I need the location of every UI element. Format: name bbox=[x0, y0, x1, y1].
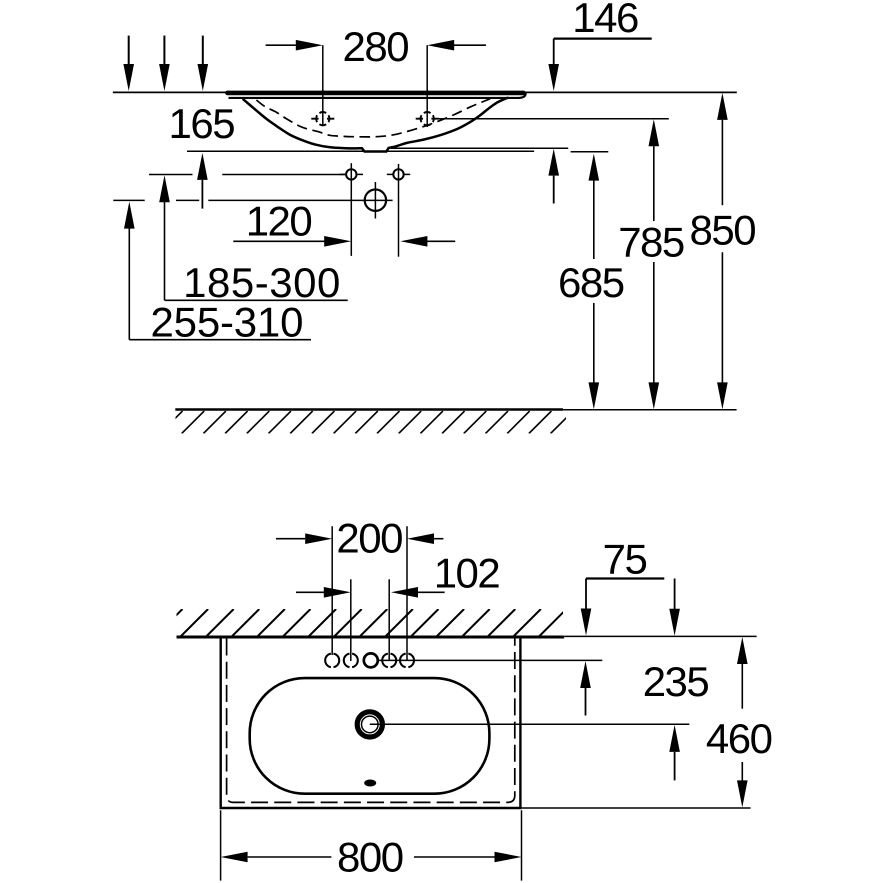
dimension 120 left leader bbox=[233, 240, 325, 242]
dimension 235 lower arrow tail bbox=[674, 752, 676, 781]
basin left edge (plan view) bbox=[219, 638, 221, 809]
drain centreline through drain hole bbox=[208, 199, 392, 201]
dimension 255-310 stem bbox=[128, 229, 130, 340]
basin bowl outline (plan view) bbox=[250, 678, 490, 794]
dimension 850 line lower bbox=[721, 252, 723, 382]
faucet holes centreline extension (plan view) bbox=[378, 659, 603, 661]
dimension 200 right leader bbox=[434, 538, 443, 540]
countertop dashed outline (plan view) bbox=[227, 639, 515, 803]
dimension 785 line upper bbox=[653, 146, 655, 221]
dimension 102 right extension line bbox=[388, 579, 390, 661]
left faucet hole (side view, dashed circle) bbox=[311, 112, 334, 125]
dimension 165 arrow tail bbox=[201, 180, 203, 209]
dimension 800 line left bbox=[248, 856, 332, 858]
middle mounting arrow (wall fixing) bbox=[159, 36, 170, 91]
basin bowl outer profile (side view) bbox=[243, 98, 509, 152]
dimension 850 top arrowhead bbox=[717, 93, 728, 120]
drain hole (plan view, double ring) bbox=[357, 712, 382, 737]
svg-text:850: 850 bbox=[690, 207, 756, 254]
dimension 200 right extension line bbox=[406, 526, 408, 661]
dimension 280 right arrowhead bbox=[427, 40, 454, 51]
dimension 200 right arrowhead bbox=[407, 533, 434, 544]
dimension 146 lower arrowhead bbox=[548, 149, 559, 176]
dimension 75 lower arrow tail bbox=[585, 688, 587, 716]
bolt hole centreline extension (left segment) bbox=[149, 174, 193, 176]
svg-text:685: 685 bbox=[558, 259, 624, 306]
dimension 102 left arrowhead bbox=[324, 587, 351, 598]
deck hole 4 (optional, arcs) bbox=[382, 654, 396, 668]
dimension 75 stem bbox=[585, 579, 587, 610]
dimension 255-310 arrowhead bbox=[124, 202, 135, 229]
drain centreline segment (left dash) bbox=[176, 199, 199, 201]
dimension 460 line lower bbox=[741, 762, 743, 781]
drain hole (side view) bbox=[365, 182, 386, 219]
dimension 146 lower arrow tail bbox=[553, 176, 555, 204]
overflow slot (plan view) bbox=[364, 780, 376, 787]
dimension 235 lower arrowhead bbox=[669, 725, 680, 752]
dimension 685 line lower bbox=[593, 303, 595, 383]
dimension 280 left leader bbox=[266, 44, 297, 46]
basin rim plate bottom edge bbox=[229, 93, 526, 98]
dimension 785 bottom arrowhead bbox=[649, 382, 660, 409]
basin bowl inner profile (dashed) bbox=[256, 99, 490, 137]
basin front edge extension line (to 460) bbox=[522, 807, 751, 809]
dimension 785 line lower bbox=[653, 262, 655, 383]
dimension 120 left arrowhead bbox=[324, 236, 351, 247]
basin front edge (plan view) bbox=[220, 807, 522, 810]
right faucet hole (side view, dashed circle) bbox=[416, 112, 439, 125]
dimension 102 left extension line bbox=[350, 579, 352, 661]
dimension 800 right extension line bbox=[521, 810, 523, 880]
wall hatching (plan view) bbox=[155, 609, 592, 637]
dimension 850 line upper bbox=[721, 120, 723, 205]
wall line (plan view, thin part) bbox=[564, 635, 756, 637]
extension line through right faucet hole bbox=[426, 45, 428, 127]
svg-text:460: 460 bbox=[706, 715, 772, 762]
dimension 75 upper arrowhead bbox=[581, 609, 592, 636]
dimension 185-300 arrowhead bbox=[159, 175, 170, 202]
bolt hole centreline extension (to left bolt) bbox=[222, 174, 345, 176]
svg-text:165: 165 bbox=[169, 100, 235, 147]
right mounting bolt hole (side view) bbox=[387, 169, 410, 179]
dimension 255-310 underline bbox=[129, 339, 311, 341]
svg-text:75: 75 bbox=[603, 535, 647, 582]
dimension 685 line upper bbox=[593, 181, 595, 260]
left mounting bolt hole (side view) bbox=[340, 169, 363, 179]
dimension 146 stem bbox=[553, 39, 555, 65]
dimension 460 line upper bbox=[741, 664, 743, 709]
svg-text:235: 235 bbox=[643, 658, 709, 705]
basin rim plate (side view, thick top bar) bbox=[227, 91, 523, 96]
deck hole 3 (middle faucet hole) bbox=[364, 653, 378, 667]
dimension 850 bottom arrowhead bbox=[717, 382, 728, 409]
left mounting arrow (wall fixing) bbox=[123, 36, 134, 91]
wall line (plan view, thick part) bbox=[177, 636, 565, 639]
deck hole 2 (optional, arcs) bbox=[344, 654, 358, 668]
dimension 165 arrowhead bbox=[197, 153, 208, 180]
dimension 185-300 stem bbox=[164, 202, 166, 300]
dimension 102 left leader bbox=[296, 591, 324, 593]
right mounting arrow (wall fixing) bbox=[198, 36, 209, 91]
svg-text:146: 146 bbox=[572, 0, 638, 41]
svg-text:120: 120 bbox=[246, 197, 312, 244]
dimension 460 top arrowhead bbox=[737, 637, 748, 664]
basin right edge (plan view) bbox=[519, 638, 521, 809]
dimension 785 top arrowhead bbox=[649, 119, 660, 146]
dimension 120 right leader bbox=[427, 240, 455, 242]
deck hole 1 (optional, arcs) bbox=[325, 654, 339, 668]
faucet hole centreline extension to 785 bbox=[432, 118, 669, 120]
dimension 102 right leader bbox=[418, 591, 445, 593]
svg-text:785: 785 bbox=[618, 219, 684, 266]
dimension 800 left extension line bbox=[220, 810, 222, 880]
dimension 102 right arrowhead bbox=[391, 587, 418, 598]
extension line through left faucet hole bbox=[322, 45, 324, 125]
dimension 800 right arrowhead bbox=[495, 852, 522, 863]
floor line (thick part) bbox=[175, 408, 563, 411]
dimension 200 left arrowhead bbox=[305, 533, 332, 544]
dimension 235 upper stem bbox=[674, 579, 676, 610]
dimension 280 left arrowhead bbox=[296, 40, 323, 51]
dimension 460 bottom arrowhead bbox=[737, 780, 748, 807]
dimension 280 right leader bbox=[454, 44, 486, 46]
svg-text:280: 280 bbox=[343, 23, 409, 70]
dimension 200 left leader bbox=[276, 538, 305, 540]
dimension 146 shelf line bbox=[554, 37, 652, 39]
wall reference line (side view, basin rim level) bbox=[113, 91, 737, 93]
right bolt hole extension line bbox=[398, 164, 400, 257]
dimension 146 upper arrowhead bbox=[548, 64, 559, 91]
svg-text:200: 200 bbox=[336, 514, 402, 561]
svg-text:102: 102 bbox=[434, 549, 500, 596]
dimension 75 shelf line bbox=[586, 577, 664, 579]
dimension 200 left extension line bbox=[331, 526, 333, 655]
drain centreline (plan view) bbox=[370, 723, 690, 725]
bowl lowest point extension line bbox=[391, 147, 568, 149]
basin bottom edge extension line (left part) bbox=[187, 150, 534, 152]
deck hole 5 (optional, arcs) bbox=[400, 654, 414, 668]
basin bottom edge extension line (right part) bbox=[571, 151, 609, 153]
dimension 800 line right bbox=[414, 856, 495, 858]
floor line (thin part) bbox=[563, 409, 737, 411]
svg-text:255-310: 255-310 bbox=[151, 299, 304, 346]
dimension 185-300 underline bbox=[165, 299, 348, 301]
svg-text:800: 800 bbox=[337, 834, 403, 881]
dimension 120 right arrowhead bbox=[400, 236, 427, 247]
dimension 75 lower arrowhead bbox=[580, 661, 591, 688]
drain centreline segment (far left) bbox=[113, 199, 144, 201]
floor hatching bbox=[160, 411, 595, 434]
dimension 685 top arrowhead bbox=[589, 154, 600, 181]
dimension 685 bottom arrowhead bbox=[589, 382, 600, 409]
dimension 800 left arrowhead bbox=[221, 852, 248, 863]
dimension 235 upper arrowhead bbox=[669, 609, 680, 636]
left bolt hole extension line bbox=[350, 163, 352, 256]
